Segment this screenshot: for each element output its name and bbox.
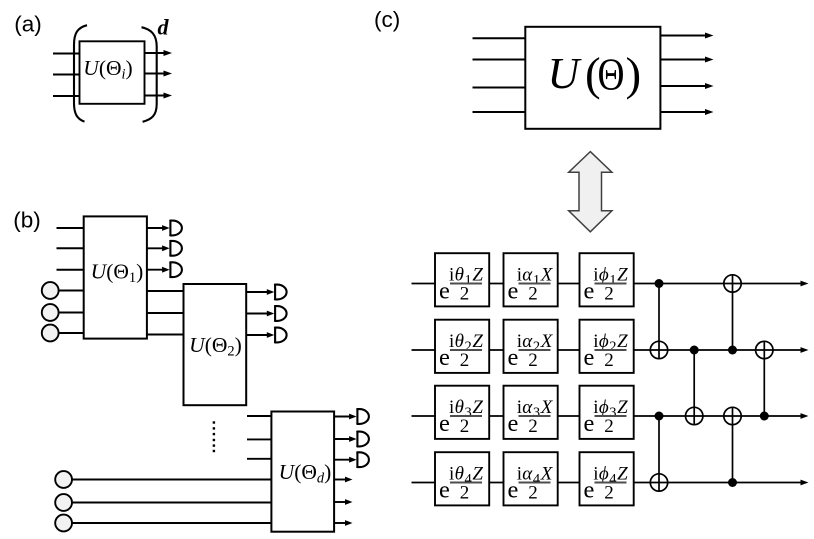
svg-text:2: 2 (604, 416, 614, 437)
wire from fresh qubit circle 3 to U(Theta_d) (72, 522, 272, 524)
svg-text:2: 2 (528, 350, 538, 371)
CNOT q3->q2: vertical connector (763, 341, 765, 416)
svg-text:U(Θ1): U(Θ1) (91, 259, 144, 286)
CNOT q3->q2: target oplus (756, 341, 773, 358)
panel (a) input wire 3 (53, 95, 80, 97)
gate R34: exp(iϕ_4Z/2) box (580, 452, 634, 505)
U(Theta_1) input stub wire 3 (57, 269, 85, 271)
panel (a) input wire 2 (53, 74, 80, 76)
U(Theta_1) measured output 1 with detector (147, 221, 182, 236)
U(Theta) input wire 2 (473, 59, 527, 61)
svg-text:(c): (c) (374, 7, 400, 32)
U(Theta_d) measured output 1 with detector (334, 409, 369, 424)
CNOT q2->q1: control dot (728, 346, 737, 355)
svg-text:U(Θ2): U(Θ2) (189, 333, 242, 360)
svg-text:d: d (158, 15, 170, 40)
gate R12: exp(iθ_2Z/2) box (435, 320, 489, 373)
U(Theta_d) output wire 3 with arrowhead (334, 520, 352, 526)
U(Theta_d) input stub wire 1 (247, 415, 272, 417)
wire from fresh qubit circle 1 to U(Theta_1) (59, 290, 84, 292)
U(Theta_2) measured output 1 with detector (246, 285, 286, 300)
wire from fresh qubit circle 2 to U(Theta_d) (72, 502, 272, 504)
svg-text:U(Θi): U(Θi) (83, 56, 132, 83)
svg-text:2: 2 (528, 483, 538, 504)
svg-text:2: 2 (460, 416, 470, 437)
qubit wire 1 of decomposed circuit (412, 281, 809, 287)
CNOT q3->q4: vertical connector (658, 416, 660, 491)
fresh qubit circle 2 for U(Theta_1) (42, 304, 59, 321)
CNOT q4->q3: vertical connector (732, 407, 734, 482)
svg-text:2: 2 (604, 350, 614, 371)
U(Theta) output wire 4 with arrowhead (660, 109, 713, 115)
CNOT q2->q3: control dot (690, 346, 699, 355)
svg-text:(b): (b) (13, 207, 41, 232)
vertical ellipsis (repeated layers) (213, 421, 215, 452)
repeated-layer left parenthesis (74, 25, 87, 122)
CNOT q3->q2: control dot (760, 412, 769, 421)
CNOT q3->q4: target oplus (650, 474, 667, 491)
CNOT q1->q2: control dot (655, 279, 664, 288)
panel (a) output wire 2 with arrowhead (145, 71, 173, 77)
wire from fresh qubit circle 2 to U(Theta_1) (59, 312, 84, 314)
unitary block U(Theta_1) (84, 216, 147, 338)
U(Theta_d) measured output 3 with detector (334, 452, 369, 467)
qubit wire 2 of decomposed circuit (412, 347, 809, 353)
U(Theta_d) measured output 2 with detector (334, 432, 369, 447)
CNOT q1->q2: vertical connector (658, 284, 660, 359)
U(Theta) output wire 1 with arrowhead (660, 33, 713, 39)
CNOT q2->q1: target oplus (724, 275, 741, 292)
svg-text:2: 2 (604, 483, 614, 504)
U(Theta) input wire 1 (473, 37, 527, 39)
U(Theta_d) output wire 1 with arrowhead (334, 477, 352, 483)
U(Theta_1) measured output 2 with detector (147, 241, 182, 256)
gate R11: exp(iθ_1Z/2) box (435, 253, 489, 306)
U(Theta_2) measured output 3 with detector (246, 328, 286, 343)
gate R23: exp(iα_3X/2) box (504, 386, 558, 439)
unitary block U(Theta_i) (80, 41, 145, 104)
gate R21: exp(iα_1X/2) box (504, 253, 558, 306)
svg-text:Θ: Θ (598, 49, 625, 100)
fresh qubit circle 3 for U(Theta_1) (42, 325, 59, 342)
wire from fresh qubit circle 1 to U(Theta_d) (72, 479, 272, 481)
svg-text:2: 2 (460, 284, 470, 305)
equivalence double-headed arrow (569, 152, 612, 232)
repeated-layer right parenthesis (142, 27, 157, 122)
fresh qubit circle 2 for U(Theta_d) (55, 494, 72, 511)
CNOT q2->q3: target oplus (686, 407, 703, 424)
CNOT q1->q2: target oplus (650, 341, 667, 358)
CNOT q4->q3: control dot (728, 478, 737, 487)
U(Theta) input wire 3 (473, 87, 527, 89)
U(Theta) input wire 4 (473, 111, 527, 113)
U(Theta_d) output wire 2 with arrowhead (334, 499, 352, 505)
wire from U(Theta_1) to U(Theta_2) qubit 1 (147, 290, 184, 292)
gate R24: exp(iα_4X/2) box (504, 452, 558, 505)
qubit wire 3 of decomposed circuit (412, 413, 809, 419)
U(Theta_2) measured output 2 with detector (246, 306, 286, 321)
CNOT q3->q4: control dot (655, 412, 664, 421)
svg-text:2: 2 (460, 350, 470, 371)
gate R13: exp(iθ_3Z/2) box (435, 386, 489, 439)
panel (a) output wire 3 with arrowhead (145, 93, 173, 99)
panel (a) output wire 1 with arrowhead (145, 50, 173, 56)
CNOT q2->q1: vertical connector (732, 275, 734, 350)
wire from fresh qubit circle 3 to U(Theta_1) (59, 332, 84, 334)
wire from U(Theta_1) to U(Theta_2) qubit 3 (147, 334, 184, 336)
U(Theta_1) input stub wire 2 (57, 247, 85, 249)
svg-text:2: 2 (604, 284, 614, 305)
U(Theta_1) measured output 3 with detector (147, 262, 182, 277)
CNOT q4->q3: target oplus (724, 407, 741, 424)
CNOT q2->q3: vertical connector (693, 350, 695, 425)
panel (a) input wire 1 (53, 53, 80, 55)
svg-text:2: 2 (528, 416, 538, 437)
svg-text:2: 2 (460, 483, 470, 504)
gate R31: exp(iϕ_1Z/2) box (580, 253, 634, 306)
U(Theta) output wire 3 with arrowhead (660, 83, 713, 89)
U(Theta_1) input stub wire 1 (57, 227, 85, 229)
svg-text:): ) (626, 48, 642, 100)
U(Theta_d) input stub wire 2 (247, 438, 272, 440)
svg-text:U(Θd): U(Θd) (279, 460, 332, 487)
svg-text:(a): (a) (14, 11, 42, 36)
gate R22: exp(iα_2X/2) box (504, 320, 558, 373)
wire from U(Theta_1) to U(Theta_2) qubit 2 (147, 312, 184, 314)
unitary block U(Theta_d) (271, 412, 334, 532)
gate R32: exp(iϕ_2Z/2) box (580, 320, 634, 373)
gate R33: exp(iϕ_3Z/2) box (580, 386, 634, 439)
qubit wire 4 of decomposed circuit (412, 480, 809, 486)
unitary block U(Theta) (525, 27, 660, 129)
U(Theta) output wire 2 with arrowhead (660, 57, 713, 63)
unitary block U(Theta_2) (184, 284, 247, 405)
svg-text:U: U (548, 49, 583, 98)
U(Theta_d) input stub wire 3 (247, 458, 272, 460)
fresh qubit circle 3 for U(Theta_d) (55, 515, 72, 532)
fresh qubit circle 1 for U(Theta_d) (55, 471, 72, 488)
svg-text:2: 2 (528, 284, 538, 305)
gate R14: exp(iθ_4Z/2) box (435, 452, 489, 505)
fresh qubit circle 1 for U(Theta_1) (42, 282, 59, 299)
